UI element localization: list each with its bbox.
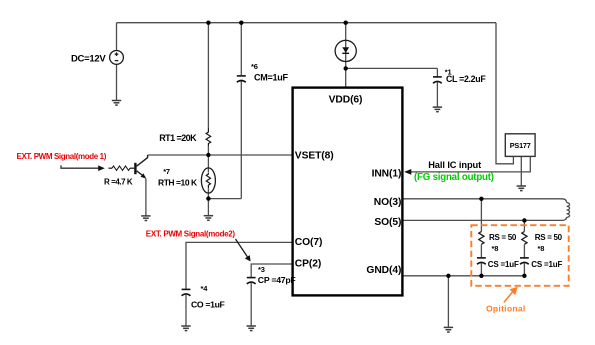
svg-text:INN(1): INN(1) [372, 169, 402, 180]
svg-text:NO(3): NO(3) [374, 197, 402, 208]
svg-text:PS177: PS177 [510, 141, 531, 150]
svg-text:Hall IC input: Hall IC input [428, 160, 481, 170]
svg-text:RS = 50: RS = 50 [535, 233, 563, 242]
svg-text:*6: *6 [251, 62, 258, 71]
svg-text:*7: *7 [163, 167, 170, 176]
svg-text:(FG signal output): (FG signal output) [414, 172, 494, 183]
svg-text:RS = 50: RS = 50 [489, 233, 517, 242]
svg-text:CS =1uF: CS =1uF [488, 260, 519, 269]
svg-text:*3: *3 [258, 265, 265, 274]
svg-text:*8: *8 [538, 244, 545, 253]
svg-text:CO =1uF: CO =1uF [191, 300, 225, 310]
svg-text:GND(4): GND(4) [366, 265, 401, 276]
svg-text:Opitional: Opitional [486, 304, 526, 314]
svg-text:CP =47pF: CP =47pF [258, 275, 296, 285]
svg-text:*8: *8 [492, 244, 499, 253]
svg-text:R =4.7 K: R =4.7 K [104, 177, 133, 186]
svg-text:CO(7): CO(7) [295, 237, 323, 248]
svg-text:EXT. PWM Signal(mode 1): EXT. PWM Signal(mode 1) [17, 152, 107, 161]
svg-text:RTH =10 K: RTH =10 K [158, 178, 198, 188]
svg-text:CS =1uF: CS =1uF [531, 260, 562, 269]
svg-text:VDD(6): VDD(6) [329, 94, 363, 105]
svg-text:RT1 =20K: RT1 =20K [159, 133, 197, 143]
svg-text:CM=1uF: CM=1uF [254, 72, 289, 82]
svg-text:SO(5): SO(5) [374, 217, 401, 228]
svg-text:CP(2): CP(2) [295, 259, 321, 270]
svg-text:DC=12V: DC=12V [71, 53, 106, 64]
svg-text:*4: *4 [201, 284, 209, 293]
svg-text:CL =2.2uF: CL =2.2uF [446, 74, 486, 84]
svg-text:EXT. PWM Signal(mode2): EXT. PWM Signal(mode2) [146, 230, 236, 239]
svg-text:VSET(8): VSET(8) [295, 151, 334, 162]
